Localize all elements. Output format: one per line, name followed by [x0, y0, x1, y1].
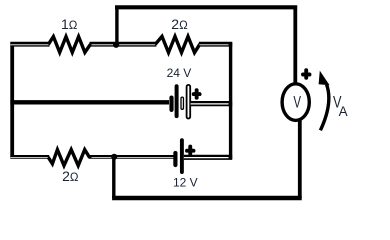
svg-text:12 V: 12 V — [173, 176, 198, 190]
battery B2 12V negative plate (short) — [173, 153, 177, 165]
svg-text:1Ω: 1Ω — [61, 16, 78, 32]
wire row1 right segment — [199, 42, 232, 47]
wire row3 middle segment — [89, 155, 174, 159]
voltmeter M1 circle — [282, 84, 309, 121]
battery B1 24V plus sign — [194, 90, 200, 98]
arrow VA reference direction arc — [320, 85, 328, 131]
wire right lower vertical — [298, 120, 302, 199]
wire row2 right segment (doubled) — [191, 101, 233, 106]
resistor R3 2ohm zigzag — [48, 150, 89, 166]
wire right upper vertical — [293, 6, 297, 85]
wire row3 left segment — [10, 155, 49, 159]
svg-text:2Ω: 2Ω — [62, 168, 79, 184]
battery B1 24V small middle plate (outlined) — [181, 97, 183, 109]
resistor R1 1ohm zigzag — [49, 37, 91, 53]
battery B2 12V positive plate (tall) — [180, 140, 184, 172]
wire bottom-left vertical — [112, 157, 115, 198]
wire mid-right vertical — [229, 42, 232, 159]
wire bottom horizontal — [112, 196, 302, 201]
battery B1 24V tall plate 2 (outlined) — [187, 85, 191, 119]
wire row1 left segment — [10, 42, 49, 47]
label voltmeter V — [293, 93, 301, 112]
svg-text:V: V — [293, 93, 301, 112]
wire top-mid vertical — [115, 9, 118, 44]
resistor R2 2ohm zigzag — [155, 36, 199, 52]
svg-text:24 V: 24 V — [167, 66, 192, 80]
node junction dot row1 — [113, 42, 119, 48]
battery B2 12V plus sign — [187, 147, 194, 154]
battery B1 24V negative plate (short) — [169, 98, 173, 110]
svg-text:A: A — [339, 104, 348, 119]
svg-text:2Ω: 2Ω — [171, 16, 188, 32]
voltmeter plus sign — [303, 70, 310, 78]
wire row2 left segment — [10, 100, 169, 104]
label VA — [333, 94, 342, 112]
wire row1 middle segment — [90, 42, 157, 47]
wire row3 right segment (doubled) — [184, 155, 232, 160]
battery B1 24V tall plate 1 — [175, 86, 179, 116]
wire left vertical — [10, 42, 14, 158]
node junction dot row3 — [111, 154, 117, 160]
wire top horizontal — [115, 5, 297, 9]
arrow VA arrowhead — [319, 71, 330, 86]
